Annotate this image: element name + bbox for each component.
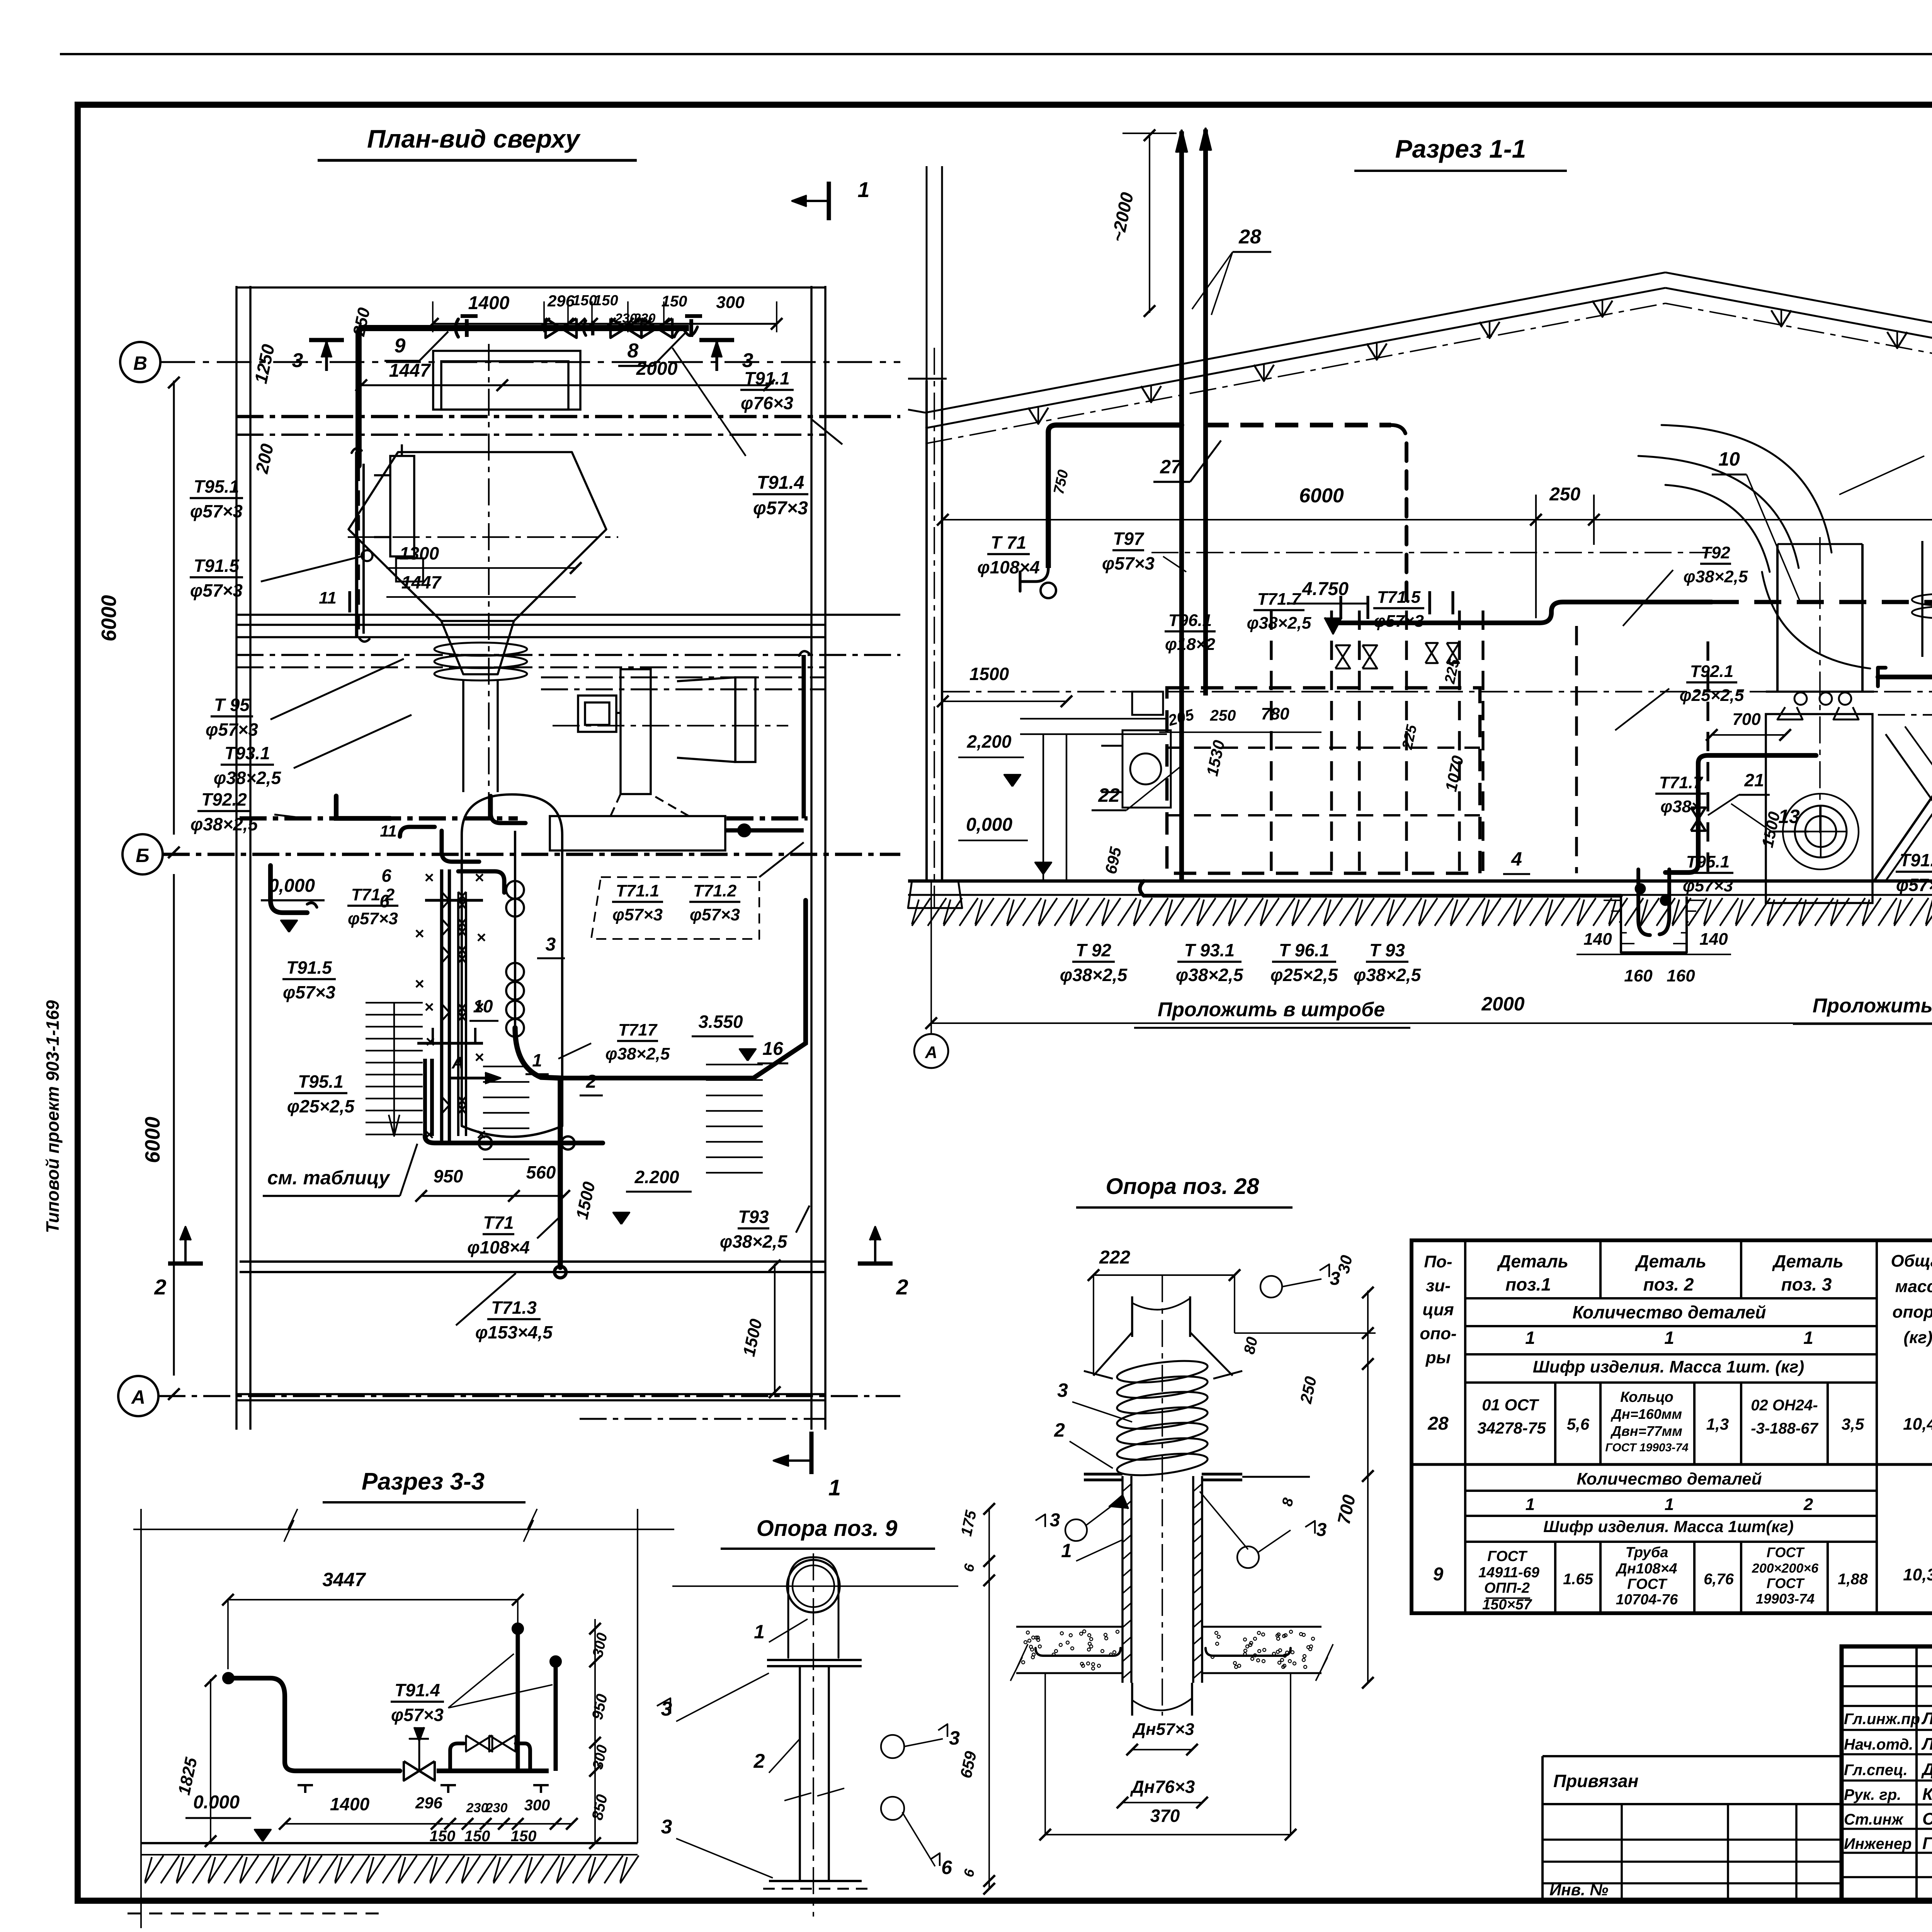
svg-text:Т71.7: Т71.7 xyxy=(1257,590,1302,609)
svg-text:Дн=160мм: Дн=160мм xyxy=(1611,1406,1682,1422)
dim ~2000 chimney xyxy=(1149,133,1150,313)
svg-text:3: 3 xyxy=(292,349,303,372)
svg-text:Т71: Т71 xyxy=(483,1213,514,1233)
svg-text:1: 1 xyxy=(1526,1495,1535,1514)
svg-text:11: 11 xyxy=(319,588,337,607)
svg-text:2000: 2000 xyxy=(1481,993,1524,1015)
svg-text:Т91.5: Т91.5 xyxy=(286,957,332,978)
svg-text:10: 10 xyxy=(473,996,493,1016)
svg-text:Т95.1: Т95.1 xyxy=(1686,852,1730,871)
support 9 plate xyxy=(767,1659,862,1661)
svg-text:2.200: 2.200 xyxy=(634,1167,679,1187)
axis А line xyxy=(158,1395,900,1397)
plan heavy line above Б xyxy=(240,816,518,821)
svg-text:×: × xyxy=(415,975,424,993)
svg-text:560: 560 xyxy=(526,1162,556,1182)
svg-text:Т91.5: Т91.5 xyxy=(194,556,240,576)
slab break ends xyxy=(1010,1644,1028,1681)
svg-text:700: 700 xyxy=(1732,710,1761,729)
svg-text:9: 9 xyxy=(1433,1564,1444,1585)
svg-text:6000: 6000 xyxy=(141,1117,164,1163)
svg-text:φ38×2,5: φ38×2,5 xyxy=(214,768,282,788)
pipe continues sec33 xyxy=(437,1769,549,1773)
svg-text:2: 2 xyxy=(896,1275,908,1299)
column footings xyxy=(908,881,962,908)
svg-text:6: 6 xyxy=(379,891,389,911)
svg-text:3: 3 xyxy=(1050,1510,1060,1531)
svg-text:1400: 1400 xyxy=(330,1794,370,1814)
svg-text:φ38×2,5: φ38×2,5 xyxy=(1176,965,1244,985)
svg-text:В: В xyxy=(133,352,147,374)
bottom dims sec33 xyxy=(285,1823,437,1825)
svg-text:9: 9 xyxy=(395,335,406,357)
flag 3 left xyxy=(325,340,328,371)
svg-text:ция: ция xyxy=(1422,1300,1454,1319)
fold mark dashes bottom left xyxy=(128,1913,379,1915)
svg-text:1,88: 1,88 xyxy=(1838,1571,1868,1588)
svg-text:1,3: 1,3 xyxy=(1706,1415,1729,1433)
svg-text:Т91.4: Т91.4 xyxy=(757,473,804,493)
svg-text:160: 160 xyxy=(1624,966,1653,985)
svg-text:×: × xyxy=(424,1125,434,1143)
section mark 2 right xyxy=(858,1262,893,1266)
svg-text:А: А xyxy=(925,1043,937,1062)
pipe elbow left corner xyxy=(359,328,363,466)
svg-text:950: 950 xyxy=(434,1166,463,1186)
valve pair 1 xyxy=(546,318,561,338)
support 9 weld leader circles xyxy=(881,1735,904,1758)
slab rebar hooks xyxy=(1036,1648,1121,1656)
svg-text:ОПП-2: ОПП-2 xyxy=(1484,1580,1530,1596)
svg-text:поз.1: поз.1 xyxy=(1505,1274,1551,1294)
svg-text:Инженер: Инженер xyxy=(1844,1835,1912,1852)
svg-text:φ57×3: φ57×3 xyxy=(190,580,243,600)
svg-text:φ38×2,5: φ38×2,5 xyxy=(190,814,259,834)
valve battery vertical xyxy=(440,869,444,1144)
deaerator dome and tank xyxy=(462,794,562,1126)
axis Б line xyxy=(163,853,900,856)
thick pipe T91.4 drop xyxy=(1878,677,1932,881)
svg-text:1: 1 xyxy=(1664,1328,1674,1348)
left riser pipes Т95.1 xyxy=(355,452,359,638)
section mark 2 left xyxy=(168,1262,203,1266)
svg-text:370: 370 xyxy=(1150,1806,1180,1826)
svg-text:28: 28 xyxy=(1238,226,1261,248)
support 28 floor slab xyxy=(1016,1626,1122,1628)
svg-text:φ38×2,5: φ38×2,5 xyxy=(1247,614,1311,633)
svg-text:φ57×3: φ57×3 xyxy=(190,501,243,521)
svg-text:14911-69: 14911-69 xyxy=(1478,1565,1539,1581)
svg-text:По-: По- xyxy=(1424,1252,1452,1271)
axis B circle xyxy=(120,342,160,382)
svg-text:Т717: Т717 xyxy=(618,1020,658,1039)
chimney pipes xyxy=(1179,131,1184,881)
roof truss left slope xyxy=(925,272,1665,413)
svg-text:Т 92: Т 92 xyxy=(1076,940,1111,960)
svg-text:1: 1 xyxy=(1061,1540,1072,1561)
support 28 spring xyxy=(1116,1357,1209,1386)
svg-text:масса: масса xyxy=(1895,1277,1932,1296)
svg-text:φ57×3: φ57×3 xyxy=(753,498,808,519)
svg-text:φ38×2,5: φ38×2,5 xyxy=(1354,965,1422,985)
svg-text:Нач.отд.: Нач.отд. xyxy=(1844,1736,1913,1753)
svg-text:опоры: опоры xyxy=(1892,1303,1932,1321)
stairs right plan xyxy=(706,1064,763,1065)
support 9 axis line xyxy=(672,1585,958,1587)
level flag 4750 xyxy=(1325,617,1342,634)
svg-text:Т 93: Т 93 xyxy=(1369,940,1405,960)
svg-text:250: 250 xyxy=(1210,707,1236,724)
narrow vessel with bellows xyxy=(1921,541,1923,657)
svg-text:Т71.1: Т71.1 xyxy=(616,881,660,900)
svg-text:ГОСТ: ГОСТ xyxy=(1627,1576,1667,1592)
ground hatch sec11 xyxy=(912,898,930,926)
sec33 right vertical xyxy=(637,1509,638,1843)
svg-text:Клоков: Клоков xyxy=(1922,1785,1932,1804)
valve sec33 xyxy=(404,1761,419,1781)
svg-text:150×57: 150×57 xyxy=(1482,1597,1532,1613)
thick downcomer and bottom run xyxy=(423,1059,427,1136)
svg-text:1: 1 xyxy=(1665,1495,1674,1514)
svg-text:Т71.5: Т71.5 xyxy=(1377,588,1421,607)
pit pipes xyxy=(1638,869,1650,935)
svg-text:222: 222 xyxy=(1099,1247,1130,1268)
svg-text:6: 6 xyxy=(381,866,391,886)
axis circle A bottom xyxy=(914,1034,948,1068)
svg-text:Разрез 1-1: Разрез 1-1 xyxy=(1395,134,1526,163)
svg-text:Т 96.1: Т 96.1 xyxy=(1279,940,1329,960)
svg-text:Количество деталей: Количество деталей xyxy=(1572,1302,1766,1322)
pipe left dashed continuation xyxy=(357,466,360,634)
svg-text:Т71.7: Т71.7 xyxy=(1659,773,1704,792)
svg-text:28: 28 xyxy=(1427,1413,1449,1434)
svg-text:Шифр изделия. Масса 1шт. (кг): Шифр изделия. Масса 1шт. (кг) xyxy=(1533,1357,1804,1376)
svg-text:φ25×2,5: φ25×2,5 xyxy=(1680,686,1744,705)
svg-text:1447: 1447 xyxy=(401,572,442,592)
support 28 pipe below slab xyxy=(1131,1683,1133,1716)
riser 1 sec33 xyxy=(516,1629,520,1771)
title block outer xyxy=(1842,1646,1932,1901)
thick L pipes top cluster xyxy=(400,827,435,837)
fan cone plan xyxy=(677,677,735,762)
svg-text:Т97: Т97 xyxy=(1113,529,1145,549)
svg-text:6: 6 xyxy=(941,1857,952,1878)
svg-text:φ38×2,5: φ38×2,5 xyxy=(720,1231,788,1252)
svg-text:Т71.3: Т71.3 xyxy=(491,1298,537,1318)
svg-text:×: × xyxy=(424,868,434,886)
svg-text:Т92.1: Т92.1 xyxy=(1690,662,1734,681)
svg-text:Левитан: Левитан xyxy=(1921,1709,1932,1728)
svg-text:φ25×2,5: φ25×2,5 xyxy=(287,1096,355,1116)
svg-text:1300: 1300 xyxy=(400,543,439,563)
plan left wall xyxy=(235,286,238,1430)
parts table row lines xyxy=(1465,1297,1877,1299)
boiler zone dashdot horizontal xyxy=(1151,552,1712,553)
svg-text:250: 250 xyxy=(1549,484,1580,505)
svg-text:10: 10 xyxy=(1718,448,1740,470)
svg-text:160: 160 xyxy=(1667,966,1695,985)
svg-text:φ57×3: φ57×3 xyxy=(690,905,740,924)
svg-text:1.65: 1.65 xyxy=(1563,1571,1594,1588)
sec33 left vertical xyxy=(140,1509,142,1928)
privyazan box xyxy=(1543,1755,1842,1757)
svg-text:1400: 1400 xyxy=(468,293,510,313)
svg-text:6000: 6000 xyxy=(1299,485,1344,507)
svg-text:Рук. гр.: Рук. гр. xyxy=(1844,1786,1901,1803)
svg-text:1: 1 xyxy=(1803,1328,1813,1348)
pump motor plan xyxy=(578,696,616,732)
svg-text:1: 1 xyxy=(532,1050,542,1070)
svg-text:0,000: 0,000 xyxy=(269,876,315,896)
svg-text:150: 150 xyxy=(662,293,687,310)
diagonal braces right xyxy=(1874,719,1932,881)
svg-text:×: × xyxy=(476,1125,486,1143)
cyclone hexagon plan xyxy=(349,452,606,621)
svg-text:0.000: 0.000 xyxy=(193,1792,240,1813)
svg-text:11: 11 xyxy=(380,822,397,840)
vessel nozzles bottom xyxy=(1794,692,1807,705)
svg-text:опо-: опо- xyxy=(1420,1324,1456,1343)
underfloor thick pipe sec11 xyxy=(1140,881,1621,896)
svg-text:10,4: 10,4 xyxy=(1903,1415,1932,1434)
parts table outer xyxy=(1412,1240,1932,1613)
pipe Т71 left horizontal xyxy=(1048,425,1182,432)
valve circles column xyxy=(506,881,524,899)
svg-text:296: 296 xyxy=(547,292,575,310)
svg-text:ГОСТ: ГОСТ xyxy=(1767,1575,1805,1591)
column axis dashdot left xyxy=(934,348,935,908)
axis B line xyxy=(160,361,900,363)
svg-text:1: 1 xyxy=(857,177,869,202)
section mark 1 near support 9 xyxy=(810,1432,814,1474)
flange blind symbol xyxy=(456,319,458,337)
fan tower plan xyxy=(621,669,651,794)
svg-text:см. таблицу: см. таблицу xyxy=(267,1167,390,1189)
svg-text:Проложить в штробе: Проложить в штробе xyxy=(1158,998,1385,1021)
boiler inner dashed horizontals xyxy=(1167,747,1480,749)
ground hatch sec33 xyxy=(145,1855,163,1883)
svg-text:Дн108×4: Дн108×4 xyxy=(1615,1561,1677,1577)
duct center dashdot xyxy=(488,344,490,823)
svg-text:А: А xyxy=(451,1053,464,1072)
svg-text:Горшунова: Горшунова xyxy=(1922,1834,1932,1853)
svg-text:φ38×: φ38× xyxy=(1660,797,1701,816)
downcomer duct xyxy=(462,680,464,792)
svg-text:φ57×3: φ57×3 xyxy=(1374,612,1424,631)
left column section 1-1 xyxy=(925,381,928,881)
truss verticals left xyxy=(1028,408,1048,424)
plan wall band line 1 xyxy=(236,415,900,418)
top dimension chain xyxy=(433,323,777,325)
floor line sec11 xyxy=(908,879,1932,883)
svg-text:3: 3 xyxy=(1330,1269,1340,1289)
boiler dashed body xyxy=(1167,688,1480,873)
fan axis dash xyxy=(553,725,788,726)
svg-text:230: 230 xyxy=(466,1801,488,1815)
svg-text:10704-76: 10704-76 xyxy=(1616,1592,1678,1608)
svg-text:Количество деталей: Количество деталей xyxy=(1577,1469,1762,1488)
svg-text:φ38×2,5: φ38×2,5 xyxy=(605,1044,670,1063)
svg-text:φ108×4: φ108×4 xyxy=(467,1237,530,1257)
svg-text:φ108×4: φ108×4 xyxy=(977,557,1040,577)
svg-text:А: А xyxy=(131,1386,145,1408)
svg-text:Гл.инж.пр: Гл.инж.пр xyxy=(1844,1711,1920,1728)
ceiling dash-dot level xyxy=(943,691,1932,692)
svg-text:Привязан: Привязан xyxy=(1553,1771,1638,1791)
svg-text:4: 4 xyxy=(1511,848,1522,870)
svg-text:φ57×3: φ57×3 xyxy=(612,905,663,924)
svg-text:поз. 2: поз. 2 xyxy=(1643,1274,1694,1294)
svg-text:Т92: Т92 xyxy=(1701,543,1730,562)
support 28 right dims xyxy=(1367,1291,1369,1683)
svg-text:Опора поз. 28: Опора поз. 28 xyxy=(1106,1174,1260,1199)
svg-text:Разрез 3-3: Разрез 3-3 xyxy=(362,1468,485,1495)
svg-text:3,5: 3,5 xyxy=(1842,1415,1864,1433)
svg-text:φ25×2,5: φ25×2,5 xyxy=(1270,965,1338,985)
thick pipe elbow to bottom riser xyxy=(515,1028,560,1267)
gas main Т71.3 double line xyxy=(240,1260,825,1263)
svg-text:80: 80 xyxy=(1241,1335,1261,1356)
fan funnel below xyxy=(611,794,689,816)
svg-text:Смирнова: Смирнова xyxy=(1922,1810,1932,1828)
svg-text:1500: 1500 xyxy=(969,664,1009,684)
raised bypass sec33 xyxy=(450,1743,464,1771)
svg-text:×: × xyxy=(474,868,484,886)
section mark 1 top xyxy=(827,182,831,220)
border frame xyxy=(60,53,1932,55)
main steam pipe mid xyxy=(1391,425,1406,603)
svg-text:140: 140 xyxy=(1583,930,1612,949)
svg-text:φ57×3: φ57×3 xyxy=(206,719,258,740)
svg-text:Гл.спец.: Гл.спец. xyxy=(1844,1762,1908,1779)
plan top wall xyxy=(236,286,825,289)
svg-text:Т95.1: Т95.1 xyxy=(194,476,239,497)
svg-text:27: 27 xyxy=(1160,456,1182,478)
svg-text:3447: 3447 xyxy=(322,1569,366,1590)
svg-text:296: 296 xyxy=(415,1794,443,1812)
chimney duct rect xyxy=(433,351,580,410)
vessel axis xyxy=(1819,537,1821,835)
svg-text:Дн57×3: Дн57×3 xyxy=(1132,1720,1194,1739)
svg-text:150: 150 xyxy=(594,293,618,309)
svg-text:φ153×4,5: φ153×4,5 xyxy=(475,1322,553,1342)
truss verticals right xyxy=(1771,310,1791,327)
svg-text:2: 2 xyxy=(753,1750,765,1772)
flag 3 right xyxy=(715,340,718,371)
support 9 pipe circle xyxy=(787,1560,840,1612)
wide vessel right xyxy=(1776,544,1779,692)
svg-text:140: 140 xyxy=(1699,930,1728,949)
svg-text:Проложить в штробе: Проложить в штробе xyxy=(1813,995,1932,1017)
support 28 top pipe stub xyxy=(1131,1296,1133,1337)
svg-text:Опора поз. 9: Опора поз. 9 xyxy=(757,1516,898,1541)
svg-text:16: 16 xyxy=(762,1039,783,1059)
svg-text:Т96.1: Т96.1 xyxy=(1168,611,1212,630)
svg-text:Общая: Общая xyxy=(1891,1252,1932,1270)
cyclone funnel xyxy=(441,621,514,674)
svg-text:150: 150 xyxy=(572,293,597,309)
svg-text:1: 1 xyxy=(828,1475,841,1500)
second boiler dashed verticals xyxy=(1575,626,1578,873)
support 28 clamp bars xyxy=(1084,1473,1122,1475)
plan lower partial lines xyxy=(541,677,825,679)
svg-text:22: 22 xyxy=(1098,784,1120,806)
roof eave lines xyxy=(908,410,925,413)
funnel bellows xyxy=(434,643,527,656)
svg-text:3: 3 xyxy=(1057,1379,1068,1401)
sec33 top boundary line xyxy=(133,1529,674,1530)
svg-text:3: 3 xyxy=(546,934,556,955)
svg-text:Ст.инж: Ст.инж xyxy=(1844,1811,1904,1828)
support 28 casing walls xyxy=(1121,1476,1124,1683)
svg-text:×: × xyxy=(415,924,424,942)
plan bottom wall lines xyxy=(236,1393,825,1395)
svg-text:φ57×3: φ57×3 xyxy=(391,1705,444,1725)
svg-text:01 ОСТ: 01 ОСТ xyxy=(1482,1396,1539,1414)
support 9 yoke xyxy=(788,1557,838,1658)
svg-text:Т93.1: Т93.1 xyxy=(224,743,270,763)
svg-text:2: 2 xyxy=(1803,1495,1813,1514)
stairs mid small xyxy=(483,1066,529,1067)
svg-text:Б: Б xyxy=(136,845,149,866)
right riser thick xyxy=(802,655,806,818)
valve pair 2 xyxy=(611,318,626,338)
thick pipe cluster near Б xyxy=(336,796,390,818)
svg-text:5,6: 5,6 xyxy=(1567,1415,1590,1433)
svg-text:3: 3 xyxy=(661,1816,672,1838)
boiler inner dashed verticals xyxy=(1270,611,1272,873)
platform lines left xyxy=(1020,718,1167,719)
svg-text:Т91.4: Т91.4 xyxy=(1900,850,1932,870)
vertical dim stubs top chain xyxy=(432,301,434,332)
svg-text:ры: ры xyxy=(1425,1348,1451,1367)
pipe dashes through chimney xyxy=(1206,423,1391,427)
svg-text:×: × xyxy=(425,1032,435,1051)
svg-text:Т 71: Т 71 xyxy=(991,532,1026,553)
support 28 cap cone xyxy=(1094,1332,1132,1376)
svg-text:φ57×3: φ57×3 xyxy=(1102,553,1155,573)
svg-text:×: × xyxy=(424,998,434,1016)
axis А circle xyxy=(118,1376,158,1416)
pipe riser marks mid xyxy=(1339,596,1342,619)
svg-text:3.550: 3.550 xyxy=(698,1012,743,1032)
floor line sec33 xyxy=(141,1842,638,1844)
names columns xyxy=(1915,1646,1918,1901)
svg-text:Двн=77мм: Двн=77мм xyxy=(1610,1423,1682,1439)
svg-text:02 ОН24-: 02 ОН24- xyxy=(1751,1397,1818,1414)
svg-text:1447: 1447 xyxy=(389,361,431,381)
pipe dot right of rect xyxy=(738,825,750,836)
bottom frame segment under titleblock xyxy=(1543,1899,1932,1903)
parts table sub column lines row28 xyxy=(1554,1383,1556,1464)
svg-text:1: 1 xyxy=(1525,1328,1535,1348)
svg-text:6000: 6000 xyxy=(97,595,121,641)
equipment curves economizer xyxy=(1662,425,1832,553)
sec33 break marks xyxy=(284,1509,298,1542)
svg-text:200×200×6: 200×200×6 xyxy=(1752,1561,1819,1576)
support 28 weld flags xyxy=(1260,1276,1282,1298)
svg-text:×: × xyxy=(476,928,486,946)
equipment rect lower right xyxy=(550,816,725,850)
svg-text:Т92.2: Т92.2 xyxy=(201,789,247,810)
pit under boiler xyxy=(1621,896,1687,952)
fan circles xyxy=(1805,816,1836,847)
svg-text:φ38×2,5: φ38×2,5 xyxy=(1060,965,1128,985)
svg-text:3: 3 xyxy=(949,1727,960,1749)
svg-text:Т95.1: Т95.1 xyxy=(298,1071,344,1092)
svg-text:φ38×2,5: φ38×2,5 xyxy=(1684,567,1748,586)
tee marks sec33 xyxy=(298,1784,313,1786)
